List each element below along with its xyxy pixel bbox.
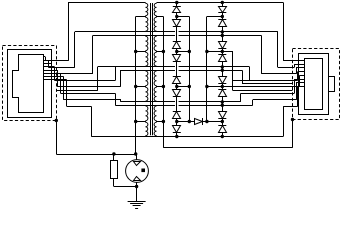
wire top line left segment (68, 2, 145, 4)
transformer right winding section 1 (154, 3, 156, 15)
transformer right winding section 4 (154, 52, 156, 66)
wire (222, 65, 224, 74)
right pin 8 riser (283, 106, 285, 136)
diode D8 (176, 122, 178, 126)
diode D14 (222, 87, 224, 90)
left shield riser (97, 67, 99, 91)
tap wire t2 right (207, 86, 222, 88)
left pin 5 riser (120, 70, 122, 87)
diode D1 (176, 3, 178, 7)
diode D4 (176, 52, 178, 55)
gas discharge tube GDT1 (134, 152, 137, 155)
right tap bus (163, 17, 165, 148)
wire pair2 upper (98, 66, 250, 68)
left 8P8C jack J1 body (8, 50, 52, 118)
left pin 1 riser (68, 3, 70, 61)
left 8P8C jack J1 cavity with key (13, 55, 44, 113)
tap wire t3 (177, 121, 190, 123)
right winding tap jog y=51.5 (157, 51, 164, 53)
tap wire t1 (177, 51, 190, 53)
diode D3 (176, 39, 178, 42)
transformer core (150, 3, 152, 135)
diode D7 (176, 109, 178, 112)
left pin 4 riser (115, 67, 117, 81)
clamp tap t1 riser to pin4 and shield (222, 51, 233, 53)
wire (176, 30, 178, 39)
column junction dots (175, 1, 178, 4)
diode D11 (222, 39, 224, 42)
wire pair3 upper (121, 101, 241, 103)
left shield wire (55, 119, 58, 122)
wire (222, 30, 224, 39)
right pin 3 riser (261, 36, 263, 74)
right 8P8C jack J2 cavity (305, 59, 323, 110)
tap wire t3 right (207, 121, 222, 123)
diode D10 (222, 17, 224, 20)
wire pair2 lower (120, 70, 242, 72)
diode D6 (176, 87, 178, 90)
left 8P8C jack shield (dashed) (3, 46, 57, 121)
left pin 8 riser (91, 106, 93, 136)
left jack pin wires (44, 56, 46, 58)
junction to line pair (221, 100, 224, 103)
ground (128, 201, 146, 203)
right 8P8C jack J2 key tab (329, 77, 335, 92)
wire (176, 65, 178, 74)
transformer left winding section 2 (146, 17, 148, 31)
diode D16 (222, 122, 224, 126)
clamp bus A (189, 17, 191, 122)
column junction dots (221, 1, 224, 4)
diode bus tap t0 left (177, 16, 190, 18)
wire pair3 lower (115, 105, 252, 107)
left pin 6 riser (115, 93, 117, 105)
wire top line right segment (157, 2, 283, 4)
left winding tap jog y=16.5 (136, 16, 146, 18)
transformer left winding section 5 (146, 71, 148, 86)
wire pair1 lower (93, 35, 262, 37)
right pin 6 staircase (240, 93, 242, 102)
left winding tap jog y=51.5 (136, 51, 146, 53)
pair2 lower stub to shield (242, 70, 244, 83)
diode D2 (176, 17, 178, 20)
wire pair1 upper (75, 31, 278, 33)
tap wire t1 right (207, 51, 222, 53)
right winding tap jog y=16.5 (157, 16, 164, 18)
diode D5 (176, 74, 178, 77)
wire crossing breaks at left diode column (175, 30, 179, 32)
transformer left winding section 1 (146, 3, 148, 15)
junction to line pair (221, 65, 224, 68)
right pin 5 wire from clamp tap t2 (222, 86, 299, 88)
junction to line pair (221, 30, 224, 33)
transformer right winding section 5 (154, 71, 156, 86)
transformer left winding section 8 (146, 122, 148, 135)
transformer right winding section 6 (154, 87, 156, 101)
transformer left winding section 6 (146, 87, 148, 101)
right pin 1 riser (283, 3, 285, 61)
diode D9 (222, 3, 224, 7)
wire (176, 100, 178, 109)
transformer left winding section 4 (146, 52, 148, 66)
right pin 4 staircase (249, 67, 251, 81)
wire bottom line (91, 136, 283, 138)
left winding tap jog y=86.5 (136, 86, 146, 88)
left winding tap jog y=121.5 (136, 121, 146, 123)
steering diode D17 (188, 120, 191, 123)
right pin 7 staircase (252, 100, 254, 105)
resistor R1 (112, 152, 115, 155)
transformer left winding section 7 (146, 106, 148, 121)
diode bus tap t0 right (207, 16, 222, 18)
left pin 7 riser (120, 100, 122, 102)
tap wire t2 (177, 86, 190, 88)
right pin 2 riser (277, 32, 279, 68)
wire (222, 100, 224, 109)
transformer right winding section 3 (154, 36, 156, 50)
transformer right winding section 7 (154, 106, 156, 121)
clamp bus B (206, 17, 208, 122)
diode D13 (222, 74, 224, 77)
transformer left winding section 3 (146, 36, 148, 50)
bottom node wire (114, 186, 137, 188)
transformer right winding section 8 (154, 122, 156, 135)
transformer right winding section 2 (154, 17, 156, 31)
diode D15 (222, 109, 224, 112)
right shield wire (291, 118, 294, 121)
left pin 2 riser (74, 32, 76, 68)
left pin 3 riser (92, 36, 94, 74)
diode D12 (222, 52, 224, 55)
left tap bus (135, 17, 137, 155)
right 8P8C jack shield (dashed) (293, 49, 340, 120)
right 8P8C jack J2 body (299, 54, 329, 115)
right winding tap jog y=121.5 (157, 121, 164, 123)
right winding tap jog y=86.5 (157, 86, 164, 88)
left shield stub (56, 90, 97, 92)
